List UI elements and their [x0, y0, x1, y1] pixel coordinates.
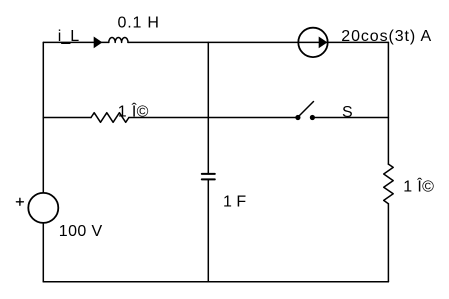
svg-text:S: S: [342, 104, 353, 121]
svg-text:1 Î©: 1 Î©: [403, 176, 434, 195]
svg-text:1 Î©: 1 Î©: [118, 101, 149, 120]
svg-text:100 V: 100 V: [59, 223, 103, 240]
svg-text:0.1 H: 0.1 H: [118, 14, 160, 31]
svg-text:1 F: 1 F: [223, 193, 246, 210]
svg-text:i_L: i_L: [58, 28, 79, 45]
svg-text:20cos(3t) A: 20cos(3t) A: [341, 28, 432, 45]
